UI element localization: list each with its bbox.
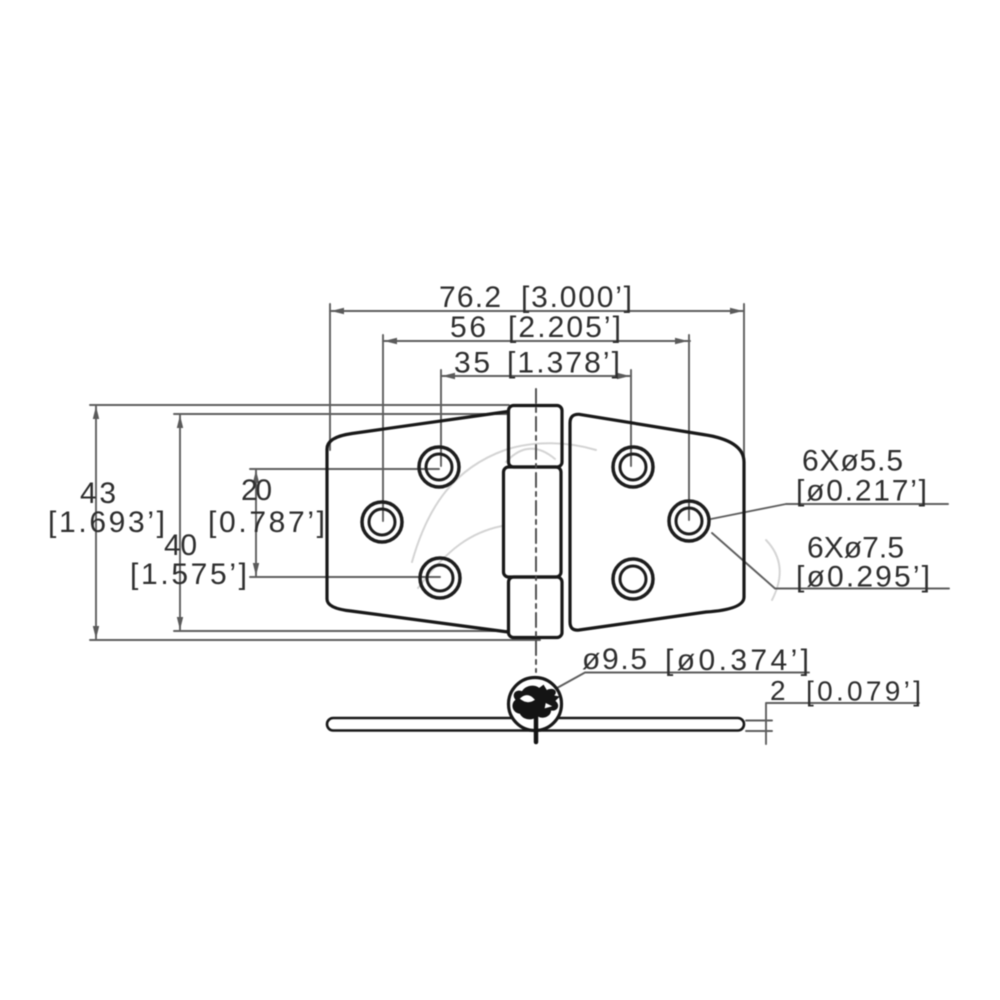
ext line left 35 <box>440 370 442 466</box>
svg-text:56: 56 <box>450 311 486 344</box>
svg-text:[0.079’]: [0.079’] <box>806 676 921 707</box>
dim line 76.2 <box>330 310 744 312</box>
ext line right 35 <box>630 370 632 466</box>
hole right-mid outer <box>669 501 709 541</box>
svg-text:[1.378’]: [1.378’] <box>507 347 620 380</box>
ext line plate bottom <box>746 730 772 732</box>
hole left-top inner <box>426 454 452 480</box>
svg-text:6Xø5.5: 6Xø5.5 <box>802 445 903 478</box>
svg-text:2: 2 <box>770 675 786 706</box>
svg-text:76.2: 76.2 <box>439 281 501 314</box>
leader 2 thickness <box>766 703 919 744</box>
svg-text:[1.693’]: [1.693’] <box>48 506 165 539</box>
side view plate <box>327 678 744 731</box>
hole left-top outer <box>419 447 459 487</box>
ext line left 76.2 <box>329 304 331 450</box>
pin center line thick <box>534 706 539 742</box>
pin blob <box>512 685 559 720</box>
leader 6X5.5 <box>711 504 948 519</box>
hole right-top outer <box>613 447 653 487</box>
ext line bottom 40 <box>174 630 507 632</box>
dim line 56 <box>383 340 690 342</box>
ext line right 76.2 <box>743 304 745 456</box>
hole left-mid outer <box>362 502 402 542</box>
knuckle middle <box>504 467 562 577</box>
side view knuckle circle <box>509 678 562 731</box>
dim line 20 <box>255 469 257 577</box>
svg-text:20: 20 <box>241 474 272 507</box>
svg-text:[3.000’]: [3.000’] <box>521 281 632 314</box>
hole left-bottom outer <box>420 558 460 598</box>
ext line top 43 <box>90 404 509 406</box>
hole right-mid inner <box>676 508 702 534</box>
ext line top 40 <box>174 413 508 415</box>
svg-text:ø9.5: ø9.5 <box>582 643 647 676</box>
dimension texts <box>48 281 930 677</box>
dim line 40 <box>179 414 181 631</box>
svg-text:[1.575’]: [1.575’] <box>130 558 247 591</box>
knuckle top <box>509 406 563 468</box>
svg-text:[ø0.217’]: [ø0.217’] <box>796 475 927 508</box>
ext line right 56 <box>688 335 690 520</box>
knuckle bottom <box>509 577 563 638</box>
svg-text:35: 35 <box>454 347 490 380</box>
svg-text:[2.205’]: [2.205’] <box>508 311 621 344</box>
centerline top view <box>535 389 537 672</box>
holes: left leaf <box>362 447 709 599</box>
ext line plate top <box>746 720 772 722</box>
dim line 43 <box>95 405 97 640</box>
hole left-mid inner <box>369 509 395 535</box>
watermark swoosh <box>412 443 780 600</box>
leader 6X7.5 <box>712 533 949 589</box>
right leaf <box>570 414 744 630</box>
dim line 35 <box>441 375 631 377</box>
left leaf <box>327 412 508 633</box>
svg-text:[0.787’]: [0.787’] <box>208 506 325 539</box>
hinge outline <box>327 406 744 638</box>
hole left-bottom inner <box>427 565 453 591</box>
ext line bottom 20 <box>250 576 440 578</box>
svg-text:[ø0.295’]: [ø0.295’] <box>796 561 930 594</box>
hole right-bottom outer <box>613 559 653 599</box>
hole right-bottom inner <box>620 566 646 592</box>
ext line top 20 <box>250 468 439 470</box>
ext line left 56 <box>382 335 384 521</box>
arrowheads <box>93 308 743 639</box>
ext line bottom 43 <box>90 639 540 641</box>
leader dia 9.5 <box>557 673 809 689</box>
hole right-top inner <box>620 454 646 480</box>
